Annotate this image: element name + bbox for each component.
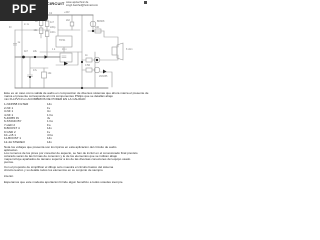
value label C9 xyxy=(50,27,55,29)
capacitor C4 plates xyxy=(28,75,33,77)
wire fb bottom xyxy=(56,52,78,65)
paragraph 1 line 1 xyxy=(4,92,158,95)
paragraph 1 line 3 xyxy=(4,98,85,101)
diode D2 xyxy=(64,62,68,66)
value label R1 xyxy=(35,21,38,23)
resistor chain col2 wires xyxy=(46,15,48,57)
value label y52a xyxy=(52,49,55,51)
wire bias horizontal y30 xyxy=(58,29,80,31)
value label in level xyxy=(24,24,29,26)
transistor Q1 xyxy=(90,21,96,27)
paragraph 2 line 4 xyxy=(4,161,14,164)
wire bias vertical x72 xyxy=(71,15,73,30)
wire top rail xyxy=(22,14,93,16)
speaker LS1 xyxy=(112,47,117,55)
value label r8 xyxy=(85,65,90,67)
resistor R9 branch xyxy=(43,68,45,88)
wire left vertical x15 xyxy=(14,30,16,88)
value label R5 xyxy=(66,20,70,22)
transistor Q3 xyxy=(94,67,100,73)
contact line 2 xyxy=(66,5,98,8)
wire r7 leads xyxy=(82,59,94,61)
nota line 1 xyxy=(4,146,116,149)
wire driver drop x58 xyxy=(57,15,59,36)
wire U1 out xyxy=(63,47,65,52)
value label r9 xyxy=(48,73,52,75)
value label C1 xyxy=(18,42,21,44)
wire right long vertical x82 xyxy=(81,15,83,87)
wire q3 horizontal xyxy=(100,72,112,87)
title line xyxy=(7,2,65,6)
resistor R3 xyxy=(45,21,49,27)
value label r7 xyxy=(85,55,88,57)
wire collector horizontal y31 xyxy=(88,30,104,32)
junction node E xyxy=(81,87,83,89)
value label q1 xyxy=(97,21,104,23)
capacitor C1 plates xyxy=(13,44,16,46)
wire q2 vertical x95 xyxy=(94,52,96,87)
paragraph 2 line 2 xyxy=(4,155,117,158)
value label U1 xyxy=(59,40,65,42)
transistor Q2 die xyxy=(96,59,98,61)
wire input horizontal y30 xyxy=(15,29,50,31)
value label C2 xyxy=(49,13,52,15)
junction node D xyxy=(81,61,83,63)
resistor R9 xyxy=(42,72,47,78)
paragraph 2 line 3 xyxy=(4,158,130,161)
emitter arrow Q3 xyxy=(103,70,107,74)
wire r8 leads xyxy=(82,69,94,71)
junction node C xyxy=(92,30,94,32)
page corner mark xyxy=(144,1,147,4)
value label bus2 xyxy=(33,51,37,53)
wire darker mid bus y57 xyxy=(15,56,60,58)
wire mid horizontal y52 xyxy=(40,51,82,53)
value label R4 xyxy=(50,32,55,34)
wire badge drop x22 xyxy=(21,15,23,88)
capacitor C5 plates inside U2 xyxy=(62,56,66,58)
parts list xyxy=(4,103,28,106)
resistor R8 xyxy=(86,68,92,72)
closing line xyxy=(4,181,123,184)
circuit schematic SVG xyxy=(0,0,149,198)
value label R3 xyxy=(50,22,54,24)
resistor chain col1 wires xyxy=(40,15,42,38)
PDF badge xyxy=(0,0,48,21)
wire bottom rail xyxy=(15,87,108,89)
resistor R1 xyxy=(39,20,43,26)
capacitor C4 branch xyxy=(30,57,48,88)
value label R2 xyxy=(34,30,38,32)
resistor R2 xyxy=(39,28,43,34)
resistor R4 xyxy=(45,31,49,37)
paragraph 1 line 2 xyxy=(4,95,113,98)
value label input xyxy=(9,27,11,29)
transistor Q2 xyxy=(94,57,100,63)
value label r6 xyxy=(95,27,99,29)
value label speaker xyxy=(126,49,133,51)
contact line 1 xyxy=(66,2,88,5)
junction node A xyxy=(22,56,25,59)
wire speaker return xyxy=(100,55,118,60)
junction node B xyxy=(34,56,36,58)
value label q3 xyxy=(99,76,107,78)
paragraph 3 line 2 xyxy=(4,169,103,172)
value label y52b xyxy=(62,49,67,51)
value label +40V xyxy=(64,12,70,14)
paragraph 3 line 3 xyxy=(4,175,14,178)
resistor R6 xyxy=(95,29,101,33)
feedback box U2 xyxy=(60,53,72,62)
value label c4 xyxy=(33,70,37,72)
capacitor C4 polarity blob xyxy=(29,76,31,78)
wire output transistor drop xyxy=(92,15,94,31)
diode D1 xyxy=(45,55,48,59)
resistor R5 on x72 xyxy=(70,22,74,26)
IC U1 box xyxy=(56,36,72,47)
paragraph 3 line 1 xyxy=(4,166,113,169)
value label bus1 xyxy=(24,51,28,53)
resistor R7 xyxy=(86,58,92,62)
paragraph 2 line 1 xyxy=(4,152,138,155)
wire to speaker xyxy=(104,31,118,47)
nota line 2 xyxy=(4,149,18,152)
